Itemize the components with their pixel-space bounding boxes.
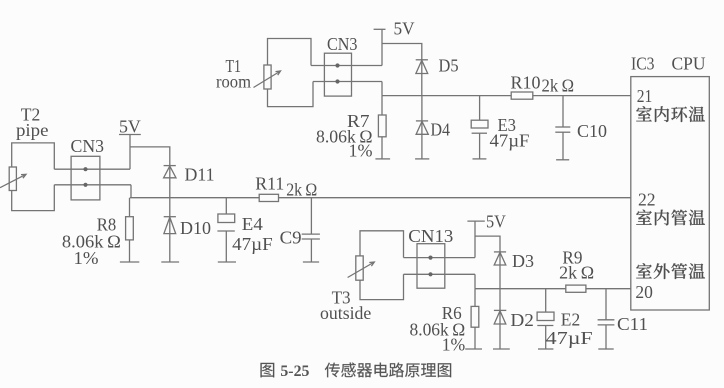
svg-text:2k Ω: 2k Ω xyxy=(286,180,317,200)
wire 5V rail down xyxy=(129,135,131,170)
connector CN3 (middle) xyxy=(71,156,100,200)
thermistor T1 xyxy=(254,65,281,89)
wire T3 loop top xyxy=(360,231,404,258)
svg-text:5V: 5V xyxy=(394,19,415,39)
svg-text:2k Ω: 2k Ω xyxy=(542,76,575,96)
svg-text:E2: E2 xyxy=(561,310,580,330)
node 20: outdoor pipe temp xyxy=(636,263,705,279)
pin dot 2 xyxy=(83,183,87,187)
capacitor C11 xyxy=(598,289,615,349)
connector CN13 xyxy=(417,244,445,289)
svg-text:C10: C10 xyxy=(577,121,607,141)
wire branch through D5 to signal node xyxy=(382,44,422,96)
svg-text:21: 21 xyxy=(637,86,653,106)
diode D4 xyxy=(416,96,428,159)
wire T2 loop top xyxy=(12,143,55,169)
diode D2 xyxy=(494,289,506,349)
electrolytic capacitor E4 xyxy=(217,198,234,262)
svg-text:47µF: 47µF xyxy=(232,234,273,254)
wire signal line to IC pin 21 xyxy=(382,95,631,97)
svg-text:1%: 1% xyxy=(442,335,466,355)
wire CN13 pin2 xyxy=(404,273,476,275)
diode D5 xyxy=(416,60,428,74)
svg-text:D3: D3 xyxy=(512,251,534,271)
svg-text:D5: D5 xyxy=(439,55,459,75)
wire CN3 pin2 xyxy=(54,184,131,186)
ground R6 xyxy=(465,348,482,350)
svg-text:D4: D4 xyxy=(431,120,451,140)
wire branch through D3 to signal node xyxy=(475,236,500,289)
electrolytic capacitor E3 xyxy=(471,96,488,159)
svg-text:E4: E4 xyxy=(242,214,263,234)
wire T1 loop top xyxy=(268,39,312,66)
svg-text:room: room xyxy=(216,72,251,92)
ground C11 xyxy=(598,348,613,350)
wire T2 loop bottom xyxy=(12,185,55,211)
svg-text:pipe: pipe xyxy=(16,120,49,140)
svg-text:CPU: CPU xyxy=(672,54,706,74)
wire CN13 pin1 to 5V rail xyxy=(404,257,476,259)
wire signal line to IC pin 20 xyxy=(475,288,631,290)
node 21: indoor ambient temp xyxy=(636,106,705,122)
wire pin2 drop xyxy=(474,274,476,288)
svg-text:2k Ω: 2k Ω xyxy=(559,263,594,283)
diode D3 xyxy=(494,252,506,265)
svg-text:R11: R11 xyxy=(255,174,284,194)
pin dot 1 xyxy=(428,256,432,260)
5V terminal bar xyxy=(119,134,141,136)
resistor R6 xyxy=(471,289,479,349)
resistor R10 xyxy=(511,92,533,99)
resistor R11 xyxy=(259,194,278,201)
svg-text:5V: 5V xyxy=(119,117,141,137)
svg-text:20: 20 xyxy=(635,282,653,302)
svg-text:D2: D2 xyxy=(510,310,534,330)
ground E2 xyxy=(538,348,553,350)
op IC3 CPU box xyxy=(631,77,710,310)
ground D4 xyxy=(415,158,429,160)
svg-text:outside: outside xyxy=(320,303,371,323)
svg-text:47µF: 47µF xyxy=(546,328,593,348)
resistor R7 xyxy=(378,96,386,159)
svg-text:22: 22 xyxy=(638,189,656,209)
5V terminal bar xyxy=(467,220,484,222)
ground C10 xyxy=(556,159,569,161)
wire 5V rail down xyxy=(381,29,383,65)
svg-text:CN13: CN13 xyxy=(408,226,453,246)
svg-text:CN3: CN3 xyxy=(327,34,358,54)
svg-text:C9: C9 xyxy=(280,228,302,248)
ground R7 xyxy=(375,158,390,160)
svg-text:CN3: CN3 xyxy=(71,136,105,156)
wire CN3 pin1 to 5V rail xyxy=(54,168,130,170)
pin dot 2 xyxy=(428,272,432,276)
wire 5V rail down xyxy=(474,221,476,258)
ground C9 xyxy=(303,261,319,263)
wire T1 loop bottom xyxy=(268,82,314,107)
capacitor C9 xyxy=(302,198,320,262)
ground R8 xyxy=(120,261,139,263)
wire CN3 pin2 xyxy=(313,81,382,83)
resistor R9 xyxy=(566,285,586,292)
connector CN3 (top) xyxy=(324,53,351,96)
wire pin2 drop xyxy=(130,185,132,198)
ground D2 xyxy=(493,348,510,350)
pin dot 1 xyxy=(335,63,339,67)
svg-text:D10: D10 xyxy=(180,218,211,238)
resistor R8 xyxy=(126,198,134,262)
svg-text:5-25: 5-25 xyxy=(280,363,309,380)
diode D11 xyxy=(164,166,176,178)
wire CN3 pin1 to 5V rail xyxy=(311,65,382,67)
svg-text:5V: 5V xyxy=(486,212,506,232)
caption: figure 5-25 sensor circuit schematic xyxy=(260,363,451,380)
svg-text:1%: 1% xyxy=(74,248,99,268)
wire pin2 drop xyxy=(381,82,383,96)
ground E3 xyxy=(473,158,487,160)
pin dot 1 xyxy=(83,167,87,171)
pin dot 2 xyxy=(335,79,339,83)
diode D10 xyxy=(164,198,176,262)
svg-text:47µF: 47µF xyxy=(490,131,530,151)
svg-text:IC3: IC3 xyxy=(631,54,655,74)
svg-text:C11: C11 xyxy=(617,314,648,334)
svg-text:1%: 1% xyxy=(349,141,373,161)
capacitor C10 xyxy=(555,96,570,160)
5V terminal bar xyxy=(374,28,386,30)
electrolytic capacitor E2 xyxy=(537,289,554,349)
svg-text:R10: R10 xyxy=(511,73,541,93)
wire signal line to IC pin 22 xyxy=(130,197,631,199)
thermistor T2 xyxy=(0,167,26,191)
ground E4 xyxy=(218,261,236,263)
svg-text:D11: D11 xyxy=(185,165,215,185)
ground D10 xyxy=(161,261,179,263)
wire branch through D11 to signal node xyxy=(130,147,170,198)
thermistor T3 xyxy=(348,256,375,280)
wire T3 loop bottom xyxy=(360,274,404,299)
node 22: indoor pipe temp xyxy=(636,210,705,226)
